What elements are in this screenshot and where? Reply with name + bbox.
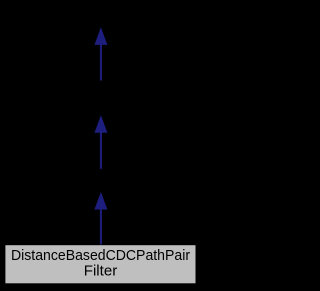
svg-text:Filter: Filter — [84, 263, 118, 280]
wire inheritance arrow 3 (bottom) — [95, 193, 107, 245]
wire inheritance arrow 2 (middle) — [95, 116, 107, 169]
node DistanceBasedCDCPathPairFilter (current class box) — [5, 245, 195, 283]
wire inheritance arrow 1 (top) — [95, 28, 107, 80]
